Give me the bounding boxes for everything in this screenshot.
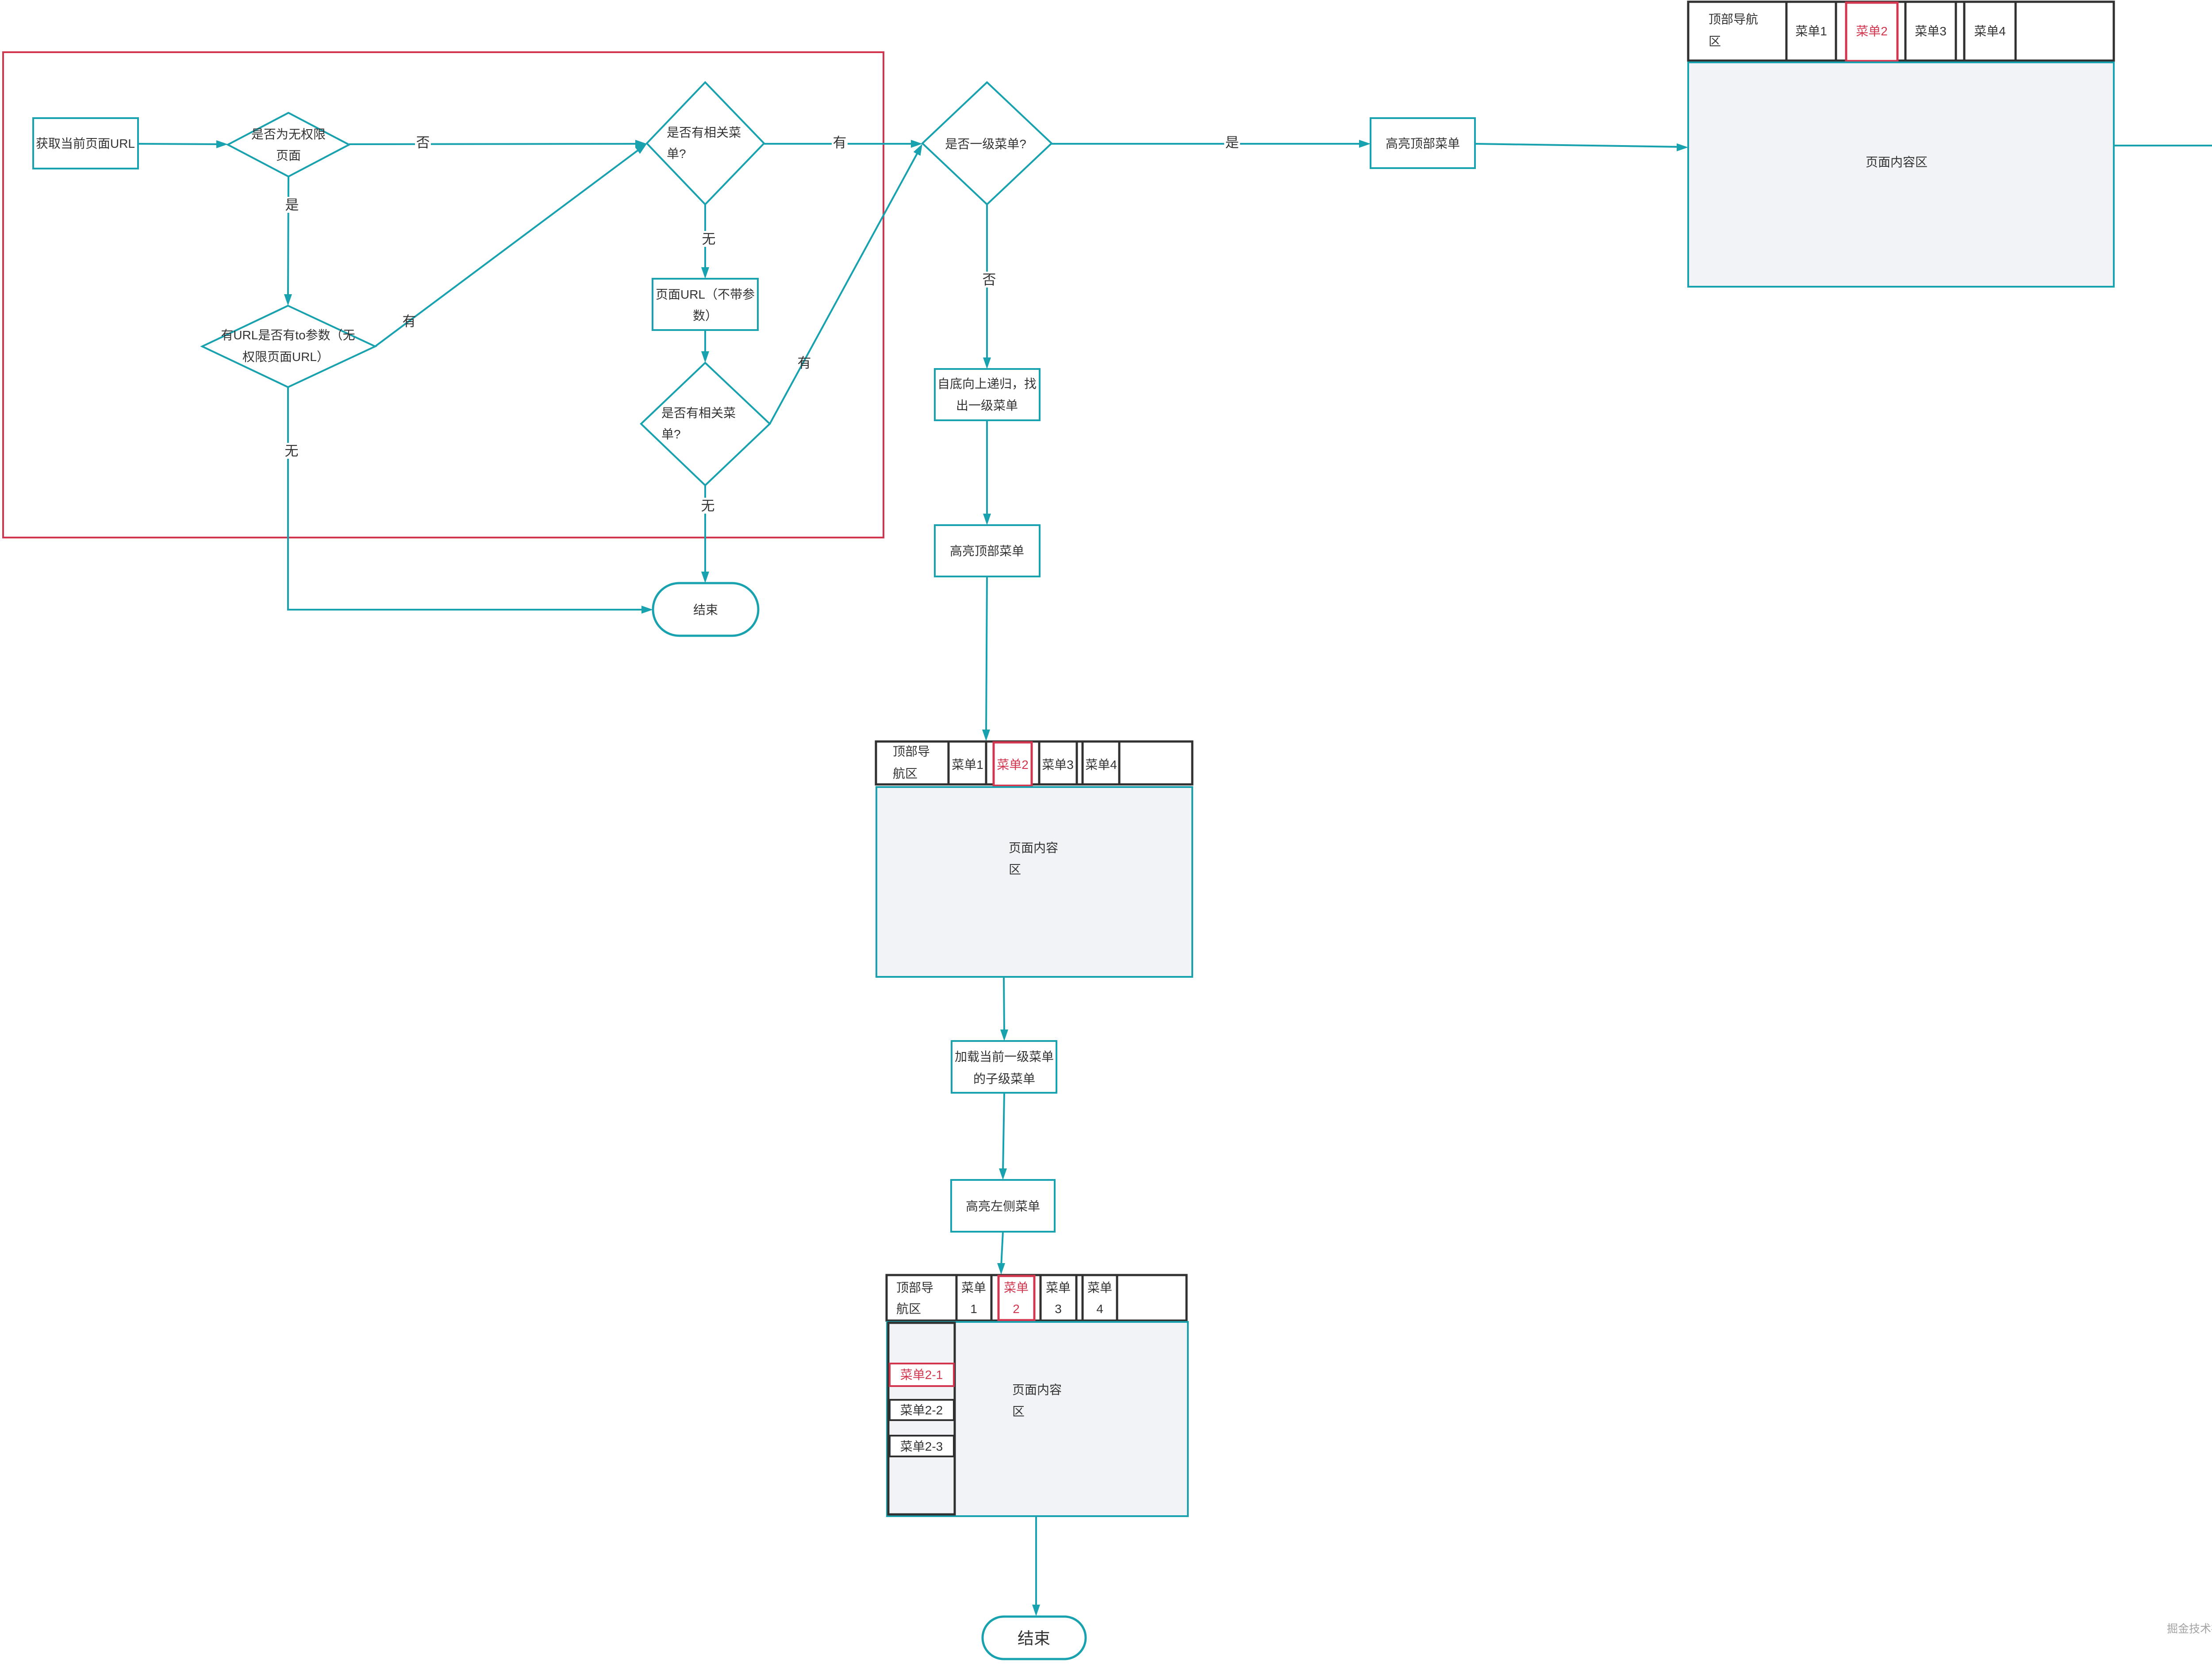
label 是 on wire B-G bbox=[284, 197, 300, 213]
svg-text:页面: 页面 bbox=[276, 149, 301, 162]
mockup1 menu cell 菜单3 bbox=[1915, 24, 1947, 38]
process box J 自底向上递归，找出一级菜单 bbox=[935, 369, 1040, 420]
svg-text:菜单3: 菜单3 bbox=[1042, 758, 1074, 772]
svg-text:有: 有 bbox=[833, 135, 847, 150]
svg-text:菜单4: 菜单4 bbox=[1974, 24, 2006, 38]
wire mockup3 to bottom terminator bbox=[1032, 1516, 1040, 1616]
wire M to mockup3 bbox=[997, 1232, 1005, 1275]
svg-text:页面内容区: 页面内容区 bbox=[1866, 155, 1928, 169]
decision diamond E 是否有相关菜单? (second) bbox=[641, 363, 770, 485]
svg-text:区: 区 bbox=[1009, 863, 1021, 876]
svg-text:掘金技术社区 @ Planck_Ho: 掘金技术社区 @ Planck_Ho bbox=[2167, 1623, 2212, 1635]
mockup1 top nav bar frame 顶部导航区 bbox=[1688, 2, 2114, 61]
mockup3 page content label 页面内容区 bbox=[1012, 1383, 1062, 1418]
wire I to mockup1 bbox=[1475, 143, 1688, 151]
mockup3 top nav bar frame 顶部导航区 bbox=[887, 1275, 1187, 1321]
svg-text:菜单2: 菜单2 bbox=[997, 758, 1029, 772]
svg-text:结束: 结束 bbox=[1018, 1629, 1050, 1648]
process box M 高亮左侧菜单 bbox=[951, 1180, 1055, 1232]
svg-text:是否一级菜单?: 是否一级菜单? bbox=[945, 137, 1026, 151]
svg-text:菜单2: 菜单2 bbox=[1856, 24, 1888, 38]
svg-text:获取当前页面URL: 获取当前页面URL bbox=[36, 137, 135, 150]
label 否 on wire H-J bbox=[981, 272, 997, 288]
decision diamond G 有URL是否有to参数（无权限页面URL） bbox=[202, 306, 375, 387]
decision diamond C 是否有相关菜单? bbox=[647, 82, 764, 204]
svg-text:页面内容: 页面内容 bbox=[1012, 1383, 1062, 1397]
wire D to E bbox=[701, 330, 709, 363]
svg-text:航区: 航区 bbox=[896, 1302, 921, 1316]
mockup3 left sidebar column bbox=[888, 1323, 955, 1514]
process box A 获取当前页面URL bbox=[33, 118, 138, 169]
mockup3 body area with sidebar and content bbox=[887, 1322, 1188, 1516]
svg-text:区: 区 bbox=[1709, 35, 1721, 48]
wire G down and right to F (无 branch) bbox=[288, 387, 653, 614]
wire B to G (yes branch) bbox=[284, 177, 292, 306]
svg-text:菜单: 菜单 bbox=[961, 1281, 986, 1295]
process box D 页面URL（不带参数） bbox=[653, 279, 758, 330]
wire L to M bbox=[999, 1093, 1007, 1180]
wire H to J (否 branch) bbox=[983, 204, 991, 369]
svg-text:数）: 数） bbox=[693, 309, 718, 323]
mockup3 sidebar item 菜单2-3 bbox=[890, 1436, 954, 1456]
wire C to D (无 branch) bbox=[701, 204, 709, 279]
svg-text:菜单1: 菜单1 bbox=[952, 758, 983, 772]
mockup3 menu cell 菜单2 highlighted bbox=[998, 1276, 1034, 1320]
svg-text:高亮顶部菜单: 高亮顶部菜单 bbox=[950, 544, 1024, 558]
svg-text:高亮顶部菜单: 高亮顶部菜单 bbox=[1386, 137, 1460, 150]
mockup1 page content area 页面内容区 bbox=[1688, 62, 2114, 287]
mockup1 menu cell 菜单4 bbox=[1974, 24, 2006, 38]
svg-text:是否有相关菜: 是否有相关菜 bbox=[667, 126, 741, 139]
svg-text:菜单3: 菜单3 bbox=[1915, 24, 1947, 38]
decision diamond B 是否为无权限页面 bbox=[228, 113, 349, 177]
svg-text:菜单: 菜单 bbox=[1004, 1281, 1029, 1295]
terminator 结束 (bottom) bbox=[983, 1617, 1086, 1659]
svg-text:是: 是 bbox=[285, 197, 299, 213]
svg-text:顶部导航: 顶部导航 bbox=[1709, 12, 1758, 26]
svg-text:菜单2-2: 菜单2-2 bbox=[900, 1403, 943, 1417]
svg-text:航区: 航区 bbox=[893, 767, 918, 780]
mockup2 menu cell 菜单1 bbox=[952, 758, 983, 772]
svg-text:结束: 结束 bbox=[693, 603, 718, 617]
svg-text:否: 否 bbox=[416, 135, 430, 150]
wire J to K bbox=[983, 420, 991, 525]
decision diamond H 是否一级菜单? bbox=[922, 82, 1052, 204]
svg-text:有URL是否有to参数（无: 有URL是否有to参数（无 bbox=[221, 328, 355, 342]
mockup2 menu cell 菜单3 bbox=[1042, 758, 1074, 772]
svg-text:顶部导: 顶部导 bbox=[893, 745, 930, 758]
svg-text:无: 无 bbox=[285, 443, 299, 459]
mockup2 page content area 页面内容区 bbox=[876, 787, 1192, 977]
svg-text:有: 有 bbox=[403, 314, 416, 329]
mockup3 menu cell 菜单3 bbox=[1046, 1281, 1071, 1316]
wire mockup2 to L bbox=[1000, 977, 1008, 1041]
mockup3 nav cell separators bbox=[956, 1275, 1117, 1321]
svg-text:菜单2-3: 菜单2-3 bbox=[900, 1440, 943, 1453]
mockup2 menu cell 菜单4 bbox=[1085, 758, 1117, 772]
svg-text:菜单4: 菜单4 bbox=[1085, 758, 1117, 772]
watermark 掘金技术社区 @ Planck_Ho bbox=[2167, 1623, 2212, 1636]
label 无 on wire C-D bbox=[701, 231, 717, 247]
svg-text:权限页面URL）: 权限页面URL） bbox=[242, 350, 329, 364]
process box I 高亮顶部菜单 (top) bbox=[1371, 118, 1475, 168]
svg-text:的子级菜单: 的子级菜单 bbox=[973, 1072, 1035, 1086]
svg-text:是否为无权限: 是否为无权限 bbox=[251, 127, 326, 141]
label 否 on wire B-C bbox=[415, 134, 431, 150]
terminator F 结束 (left) bbox=[653, 583, 758, 636]
svg-text:菜单: 菜单 bbox=[1087, 1281, 1112, 1295]
label 有 on wire C-H bbox=[832, 134, 848, 150]
svg-text:高亮左侧菜单: 高亮左侧菜单 bbox=[966, 1199, 1040, 1213]
label 有 on wire G-C bbox=[403, 314, 416, 329]
svg-text:是否有相关菜: 是否有相关菜 bbox=[661, 406, 736, 420]
wire C to H (有 branch) bbox=[764, 140, 922, 148]
svg-text:页面内容: 页面内容 bbox=[1009, 841, 1058, 855]
wire K to mockup2 bbox=[982, 576, 990, 741]
svg-text:加载当前一级菜单: 加载当前一级菜单 bbox=[955, 1050, 1054, 1064]
mockup1 nav cell separators bbox=[1786, 2, 2016, 61]
svg-text:无: 无 bbox=[702, 231, 716, 247]
svg-text:菜单2-1: 菜单2-1 bbox=[900, 1368, 943, 1382]
svg-text:页面URL（不带参: 页面URL（不带参 bbox=[656, 288, 755, 301]
wire E to F (无 branch) bbox=[701, 485, 709, 583]
process box L 加载当前一级菜单的子级菜单 bbox=[952, 1041, 1056, 1093]
wire E to H diagonal (有 branch) bbox=[770, 144, 922, 424]
mockup3 sidebar item 菜单2-1 highlighted bbox=[890, 1364, 954, 1386]
svg-text:1: 1 bbox=[970, 1302, 977, 1316]
svg-text:4: 4 bbox=[1096, 1302, 1103, 1316]
process box K 高亮顶部菜单 (middle) bbox=[935, 525, 1040, 576]
wire H to I (是 branch) bbox=[1052, 140, 1371, 148]
svg-text:单?: 单? bbox=[667, 147, 686, 161]
mockup2 top nav bar frame 顶部导航区 bbox=[876, 741, 1192, 784]
mockup2 nav cell separators bbox=[949, 741, 1119, 784]
wire B to C (no branch) bbox=[349, 140, 647, 148]
label 有 on wire E-H bbox=[798, 355, 811, 371]
svg-text:自底向上递归，找: 自底向上递归，找 bbox=[937, 377, 1037, 391]
label 无 on wire G-F bbox=[284, 443, 300, 459]
mockup2 menu cell 菜单2 highlighted bbox=[994, 742, 1032, 786]
svg-text:顶部导: 顶部导 bbox=[896, 1281, 933, 1295]
svg-text:菜单1: 菜单1 bbox=[1795, 24, 1827, 38]
svg-text:单?: 单? bbox=[661, 427, 681, 441]
mockup1 menu cell 菜单1 bbox=[1795, 24, 1827, 38]
svg-text:2: 2 bbox=[1013, 1302, 1020, 1316]
wire G to C diagonal (有 branch) bbox=[375, 144, 647, 346]
mockup1 menu cell 菜单2 highlighted bbox=[1846, 3, 1897, 61]
mockup3 sidebar item 菜单2-2 bbox=[890, 1400, 954, 1420]
svg-text:无: 无 bbox=[701, 498, 715, 514]
label 是 on wire H-I bbox=[1224, 134, 1240, 150]
wire A to B bbox=[138, 140, 228, 148]
mockup3 menu cell 菜单4 bbox=[1087, 1281, 1112, 1316]
svg-text:区: 区 bbox=[1012, 1405, 1025, 1418]
svg-text:否: 否 bbox=[983, 272, 996, 288]
svg-text:3: 3 bbox=[1055, 1302, 1062, 1316]
mockup3 menu cell 菜单1 bbox=[961, 1281, 986, 1316]
label 无 on wire E-F bbox=[700, 498, 716, 514]
wire mockup1 to top-right terminator bbox=[2114, 142, 2212, 150]
svg-text:是: 是 bbox=[1225, 135, 1239, 150]
red group frame bbox=[3, 52, 883, 538]
svg-text:出一级菜单: 出一级菜单 bbox=[956, 399, 1018, 412]
svg-text:菜单: 菜单 bbox=[1046, 1281, 1071, 1295]
svg-text:有: 有 bbox=[798, 355, 811, 371]
